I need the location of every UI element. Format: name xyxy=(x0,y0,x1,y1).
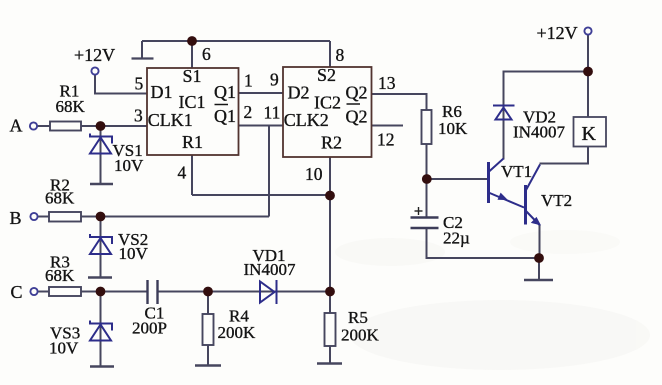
wire R6 bottom xyxy=(426,144,428,179)
svg-text:VT1: VT1 xyxy=(501,162,532,181)
wire relay bottom to VT2 collector xyxy=(540,147,589,164)
wire R1 to CLK1 pin3 xyxy=(81,125,147,127)
resistor R2 68K xyxy=(49,212,81,222)
resistor R5 200K xyxy=(325,313,336,346)
IC2 box xyxy=(283,67,372,157)
svg-text:R5: R5 xyxy=(348,308,368,327)
svg-text:S1: S1 xyxy=(183,66,202,86)
wire +12V right terminal lead xyxy=(587,35,589,72)
node emitter/C2/ground xyxy=(534,253,544,263)
svg-text:A: A xyxy=(10,116,23,136)
diode VD2 IN4007 xyxy=(496,108,512,120)
svg-text:200P: 200P xyxy=(132,319,167,338)
wire reset node down to VD1 cathode xyxy=(329,196,331,292)
terminal +12V left xyxy=(91,67,98,74)
ground R5 xyxy=(317,362,342,364)
wire VS3 top lead xyxy=(100,292,102,341)
svg-text:4: 4 xyxy=(178,163,187,183)
svg-text:Q2: Q2 xyxy=(346,83,368,103)
wire C input to R3 xyxy=(38,291,49,293)
svg-text:13: 13 xyxy=(378,73,396,93)
svg-text:+12V: +12V xyxy=(537,23,578,43)
transistor VT2 xyxy=(526,165,542,226)
wire R5 top lead xyxy=(329,292,331,314)
wire top rail S1-S2 xyxy=(142,40,330,42)
svg-text:11: 11 xyxy=(264,103,281,123)
wire VS2 bottom lead xyxy=(100,238,102,278)
node S rail junction xyxy=(187,36,197,46)
svg-text:B: B xyxy=(10,208,22,228)
svg-text:200K: 200K xyxy=(218,323,257,342)
svg-text:Q2: Q2 xyxy=(346,107,368,127)
wire VD2 cathode to +12V rail xyxy=(504,72,589,121)
wire Q1 pin1 to D2 pin9 xyxy=(239,92,284,94)
svg-text:10K: 10K xyxy=(438,119,468,138)
svg-text:R1: R1 xyxy=(182,132,203,152)
ground plate at rail left end xyxy=(141,41,143,58)
svg-text:+12V: +12V xyxy=(74,45,115,65)
node pin4/pin10 xyxy=(325,191,335,201)
wire R4 bottom lead xyxy=(207,345,209,365)
transistor VT1 xyxy=(489,159,525,208)
svg-text:K: K xyxy=(582,123,597,145)
svg-text:22µ: 22µ xyxy=(443,229,470,248)
ground R4 xyxy=(195,364,221,366)
zener VS3 xyxy=(90,321,112,331)
svg-text:D1: D1 xyxy=(151,82,173,102)
svg-text:IN4007: IN4007 xyxy=(244,260,296,279)
IC1 box xyxy=(147,68,239,155)
wire B input to R2 xyxy=(38,216,49,218)
wire net11 vertical to B line xyxy=(268,126,270,217)
ground VS2 xyxy=(88,276,112,278)
svg-text:1: 1 xyxy=(244,71,253,91)
wire VS1 bottom lead xyxy=(100,137,102,184)
wire A input to R1 xyxy=(38,125,51,127)
ground VS3 xyxy=(90,365,114,367)
svg-text:VT2: VT2 xyxy=(541,191,572,210)
svg-text:2: 2 xyxy=(244,102,253,122)
wire VD2 anode to VT1 collector xyxy=(503,107,505,160)
wire C2 bottom lead xyxy=(427,228,540,258)
wire R3 to C1 xyxy=(81,291,148,293)
svg-text:5: 5 xyxy=(135,74,144,94)
ground VS1 xyxy=(90,183,113,185)
svg-text:C: C xyxy=(11,282,23,302)
wire pin8 stub xyxy=(329,41,331,67)
svg-text:6: 6 xyxy=(202,44,211,64)
svg-text:9: 9 xyxy=(270,70,279,90)
node +12V/relay/VD2 xyxy=(583,67,593,77)
wire R4 top lead xyxy=(207,292,209,315)
op IC2 Q2bar overline xyxy=(347,103,361,105)
wire pin4 R1 down xyxy=(191,155,193,195)
terminal A xyxy=(30,122,37,129)
resistor R3 68K xyxy=(49,287,81,296)
watermark smudge xyxy=(335,230,650,370)
svg-text:IC1: IC1 xyxy=(179,92,206,112)
svg-text:10V: 10V xyxy=(119,244,149,263)
svg-text:10V: 10V xyxy=(49,339,79,358)
svg-text:200K: 200K xyxy=(341,326,380,345)
svg-text:D2: D2 xyxy=(288,83,310,103)
resistor R4 200K xyxy=(203,314,214,345)
wire VS1 top lead xyxy=(100,126,102,154)
node C1/R4 xyxy=(203,287,213,297)
node B/VS2 xyxy=(96,212,106,222)
wire C1 to VD1 anode xyxy=(158,291,331,293)
wire +12V left to pin5 D1 xyxy=(95,75,147,94)
resistor R6 10K xyxy=(422,110,432,144)
ground VT2 emitter xyxy=(524,279,553,281)
op IC1 Q1bar overline xyxy=(215,104,229,106)
node C/VS3 xyxy=(96,287,106,297)
wire C2 top lead xyxy=(426,179,428,218)
resistor R1 68K xyxy=(50,122,81,131)
wire pin13 Q2 to R6 xyxy=(372,94,427,110)
wire R5 bottom lead xyxy=(329,346,331,363)
wire base node to VT1 xyxy=(427,178,488,180)
node VD1/R5 xyxy=(325,287,335,297)
wire emitter ground stem xyxy=(538,258,540,280)
svg-text:CLK2: CLK2 xyxy=(284,110,329,130)
svg-text:Q1: Q1 xyxy=(214,106,236,126)
terminal C xyxy=(30,288,37,295)
capacitor C2 plates xyxy=(411,218,439,229)
wire relay top lead xyxy=(587,72,589,118)
svg-text:Q1: Q1 xyxy=(214,82,236,102)
svg-text:8: 8 xyxy=(336,45,345,65)
capacitor C2 plus sign xyxy=(415,207,423,215)
capacitor C1 plates xyxy=(148,280,158,304)
wire VT2 emitter down xyxy=(539,225,541,258)
svg-text:68K: 68K xyxy=(45,266,75,285)
svg-text:12: 12 xyxy=(377,130,395,150)
diode VD1 IN4007 xyxy=(260,282,275,303)
relay K box xyxy=(574,117,607,147)
wire Q1bar pin2 to CLK2 pin11 xyxy=(239,125,284,127)
svg-text:R2: R2 xyxy=(321,133,342,153)
svg-text:10: 10 xyxy=(305,164,323,184)
terminal B xyxy=(30,213,37,220)
node R6/C2/base xyxy=(422,174,432,184)
wire pin4 to pin10 rail xyxy=(192,194,330,196)
zener VS1 xyxy=(90,134,112,144)
wire pin6 stub xyxy=(191,41,193,68)
terminal +12V right xyxy=(584,27,591,34)
wire pin10 stub xyxy=(329,157,331,196)
svg-text:68K: 68K xyxy=(45,189,75,208)
wire VS2 top lead xyxy=(100,217,102,255)
zener VS2 xyxy=(90,234,112,244)
svg-text:68K: 68K xyxy=(56,97,86,116)
svg-text:IN4007: IN4007 xyxy=(513,123,565,142)
svg-text:3: 3 xyxy=(134,106,143,126)
svg-text:10V: 10V xyxy=(114,156,144,175)
wire R2 to net11 xyxy=(81,216,269,218)
svg-text:S2: S2 xyxy=(317,65,336,85)
wire VS3 bottom lead xyxy=(100,324,102,366)
node A/VS1 xyxy=(96,121,106,131)
wire pin12 stub xyxy=(372,125,404,127)
svg-text:CLK1: CLK1 xyxy=(148,110,193,130)
